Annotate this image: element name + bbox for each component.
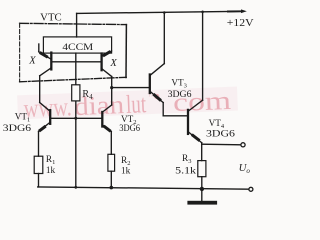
- svg-text:+12V: +12V: [227, 18, 254, 29]
- svg-text:3DG6: 3DG6: [206, 129, 235, 140]
- svg-text:1k: 1k: [46, 166, 56, 176]
- svg-text:X: X: [109, 58, 117, 69]
- svg-text:dian: dian: [74, 90, 125, 121]
- svg-text:VTC: VTC: [40, 13, 62, 24]
- svg-text:3DG6: 3DG6: [119, 123, 140, 133]
- svg-text:X: X: [28, 56, 36, 67]
- svg-text:3DG6: 3DG6: [168, 89, 192, 100]
- svg-text:4CCM: 4CCM: [62, 42, 93, 52]
- svg-text:1k: 1k: [121, 167, 131, 177]
- svg-text:3DG6: 3DG6: [3, 123, 31, 134]
- svg-text:5.1k: 5.1k: [175, 166, 196, 176]
